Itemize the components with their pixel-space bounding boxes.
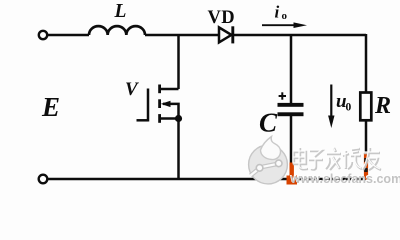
svg-text:o: o bbox=[282, 10, 288, 22]
svg-text:V: V bbox=[125, 79, 139, 100]
svg-text:www.elecfans.com: www.elecfans.com bbox=[290, 172, 400, 186]
svg-text:L: L bbox=[114, 1, 127, 22]
svg-text:E: E bbox=[41, 92, 60, 122]
svg-text:0: 0 bbox=[346, 101, 352, 113]
svg-text:VD: VD bbox=[208, 8, 236, 28]
svg-text:R: R bbox=[374, 93, 391, 119]
svg-text:C: C bbox=[259, 108, 278, 138]
svg-text:i: i bbox=[275, 3, 280, 22]
